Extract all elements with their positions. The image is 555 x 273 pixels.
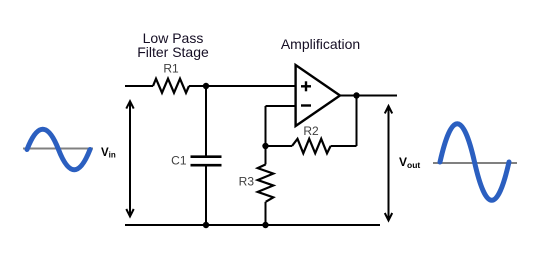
wire: junction down to C1: [205, 86, 207, 157]
output sine wave: [440, 124, 509, 201]
wire: R3 to bottom rail: [265, 202, 267, 225]
svg-text:R2: R2: [303, 124, 319, 138]
op-amp + symbol: [301, 81, 311, 91]
node: R1/C1 junction: [203, 83, 209, 89]
svg-text:R1: R1: [163, 62, 179, 76]
wire: R1 to op-amp + input: [189, 85, 297, 87]
resistor R2: [292, 139, 331, 154]
node: feedback junction: [262, 143, 268, 149]
node: R3 bottom rail junction: [262, 222, 268, 228]
wire: feedback node down to R3: [265, 146, 267, 164]
output sine wave baseline: [433, 162, 517, 164]
capacitor C1: [191, 157, 222, 166]
resistor R3: [258, 164, 274, 201]
wire: inverting input: [266, 105, 296, 107]
svg-text:Filter Stage: Filter Stage: [137, 44, 209, 60]
input sine wave: [27, 129, 90, 170]
wire: op-amp output: [340, 95, 397, 97]
wire: feedback riser to output: [356, 96, 358, 147]
resistor R1: [153, 79, 189, 93]
svg-text:Amplification: Amplification: [281, 36, 360, 52]
Vin measurement arrow: [126, 101, 133, 216]
wire: C1 to bottom rail: [205, 165, 207, 225]
op-amp U1: [296, 65, 340, 126]
op-amp - symbol: [301, 104, 311, 106]
wire: junction to R2: [266, 145, 293, 147]
svg-text:Vin: Vin: [101, 147, 116, 160]
svg-text:Vout: Vout: [399, 155, 420, 170]
wire: R2 to output riser: [331, 145, 357, 147]
node: C1 bottom rail junction: [203, 222, 209, 228]
wire: inverting input down to feedback node: [265, 106, 267, 146]
wire: input to R1: [125, 85, 153, 87]
Vout measurement arrow: [385, 106, 392, 220]
node: output junction: [353, 92, 359, 98]
input sine wave baseline: [23, 148, 93, 150]
svg-text:C1: C1: [171, 154, 187, 168]
wire: bottom rail: [125, 224, 380, 226]
svg-text:R3: R3: [239, 175, 255, 189]
